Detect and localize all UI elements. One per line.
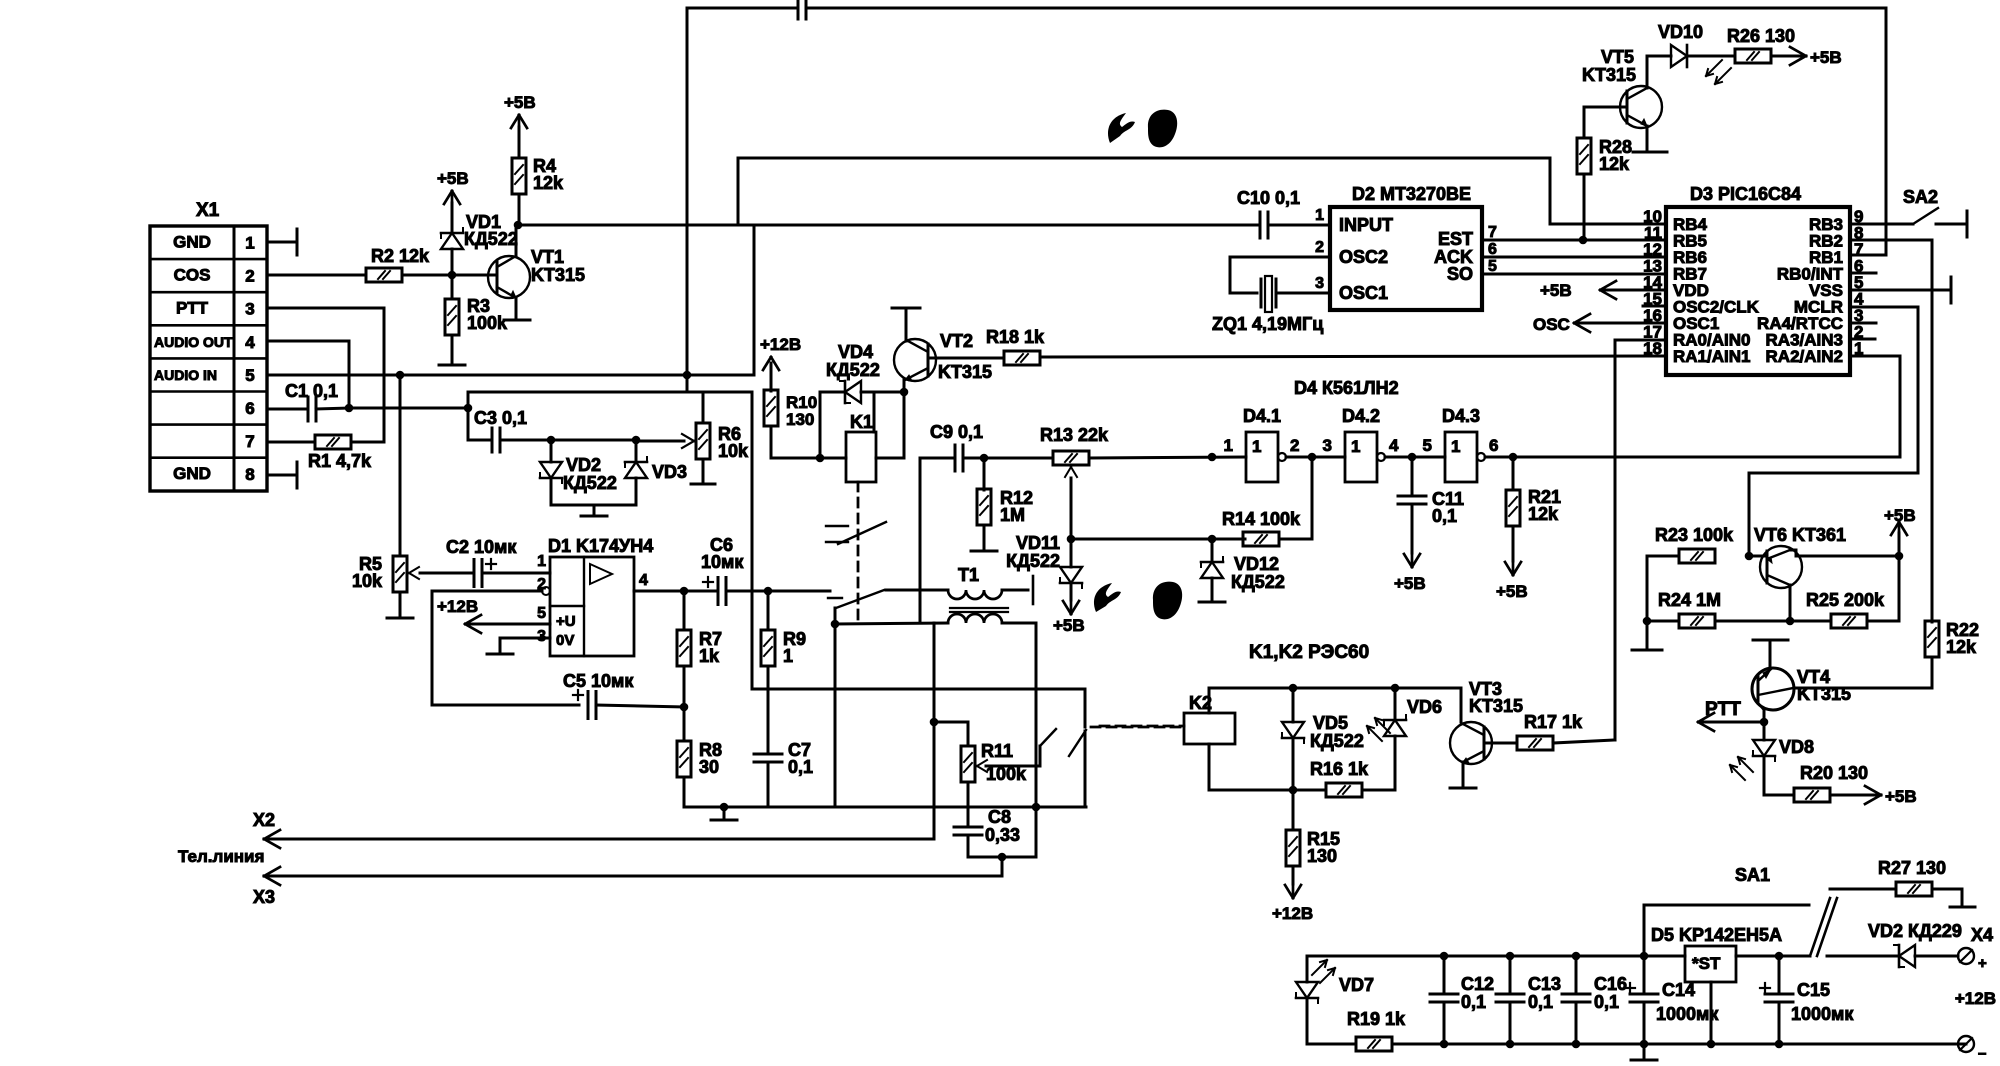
wire SA1 input from C14 node (1643, 905, 1646, 956)
svg-text:1: 1 (1315, 207, 1324, 224)
svg-text:R19 1k: R19 1k (1347, 1009, 1406, 1029)
svg-text:18: 18 (1643, 339, 1662, 358)
transformer T1 lower winding (948, 614, 1002, 623)
wire R1 to PTT riser (351, 441, 384, 444)
node C16 bottom (1572, 1040, 1581, 1049)
svg-text:INPUT: INPUT (1339, 215, 1393, 235)
svg-text:VT2: VT2 (940, 331, 973, 351)
node R15 branch (1289, 786, 1298, 795)
svg-text:VT5: VT5 (1601, 47, 1634, 67)
wire C9 to R13 (963, 457, 1053, 460)
svg-text:VD11: VD11 (1016, 533, 1060, 553)
node D5 bottom (1707, 1040, 1716, 1049)
wire PSU top rail (1307, 955, 1685, 958)
svg-text:VD7: VD7 (1339, 975, 1374, 995)
wire VD2b to X4 plus (1915, 955, 1958, 958)
transistor VT5 (1620, 86, 1662, 128)
wire contact node riser to bottom rail (834, 624, 837, 807)
wire X3 riser (1001, 857, 1004, 876)
wire K1 top lead (873, 392, 876, 432)
resistor R21 (1512, 457, 1515, 490)
svg-text:100k: 100k (467, 313, 508, 333)
resistor R1 (267, 441, 315, 444)
scan artifact blob 1a (1108, 113, 1135, 143)
terminal X3 arrow (264, 867, 280, 876)
wire X3 line (264, 875, 1002, 878)
wire R15 to +12V down arrow (1292, 866, 1295, 884)
capacitor C8 (954, 826, 982, 829)
node VD2 branch (547, 436, 556, 445)
wiper arrow into R11 (986, 765, 1040, 768)
svg-text:R2 12k: R2 12k (371, 246, 430, 266)
wire VD11 node to R14 line (1071, 538, 1212, 541)
svg-text:30: 30 (699, 757, 719, 777)
svg-text:12k: 12k (533, 173, 564, 193)
wire K2 top rail (1208, 688, 1211, 713)
wire R26 to +5V arrow right (1771, 55, 1806, 58)
ground VD12 (1211, 578, 1214, 600)
node lower winding lead on bottom rail (1032, 803, 1041, 812)
svg-text:0,1: 0,1 (788, 757, 813, 777)
svg-text:+5В: +5В (1540, 281, 1572, 300)
svg-text:4: 4 (245, 333, 255, 352)
node VT6 collector junction (1786, 617, 1795, 626)
wire D5 ground lead (1710, 982, 1713, 1044)
svg-text:D4.2: D4.2 (1342, 406, 1380, 426)
svg-text:130: 130 (786, 410, 814, 429)
wire C11 to +5V down arrow (1411, 504, 1414, 553)
node C14 bottom (1640, 1040, 1649, 1049)
svg-text:КД522: КД522 (1006, 551, 1060, 571)
node X3 riser junction (998, 853, 1007, 862)
capacitor C12 (1443, 956, 1446, 991)
wire D4.3 output line (1485, 456, 1900, 459)
capacitor C16 (1575, 956, 1578, 991)
power +5V arrow above R4 (518, 127, 521, 158)
svg-text:KT315: KT315 (1797, 684, 1851, 704)
svg-text:0,1: 0,1 (1594, 992, 1619, 1012)
wire top bus horizontal (687, 7, 798, 10)
svg-text:+5В: +5В (1496, 582, 1528, 601)
diode VD5 (1292, 688, 1295, 722)
svg-text:R1 4,7k: R1 4,7k (308, 451, 372, 471)
resistor R6 trimmer (696, 423, 710, 459)
resistor R13 trimmer (1053, 451, 1089, 465)
wire R8 to bottom rail (683, 777, 686, 807)
svg-text:1: 1 (1252, 437, 1261, 456)
svg-text:КД522: КД522 (826, 360, 880, 380)
relay K1 actuator dashed link (857, 482, 860, 622)
svg-text:+5В: +5В (1884, 506, 1916, 525)
svg-text:C5 10мк: C5 10мк (563, 671, 634, 691)
wire loop corner to bottom rail (1084, 689, 1087, 727)
wire RB2 to R22 riser (1850, 239, 1932, 242)
svg-text:R18 1k: R18 1k (986, 327, 1045, 347)
wire audio-out feedback line (467, 392, 470, 408)
svg-text:D3 PIC16C84: D3 PIC16C84 (1690, 184, 1801, 204)
svg-text:KT315: KT315 (1582, 65, 1636, 85)
resistor R26 (1735, 49, 1771, 63)
ground VD2/VD3 (581, 515, 607, 518)
node D4.1 output junction (1308, 453, 1317, 462)
svg-text:1000мк: 1000мк (1791, 1004, 1854, 1024)
wire D4.2 out to D4.3 in (1385, 456, 1445, 459)
svg-text:OSC: OSC (1533, 315, 1570, 334)
wire audio line corner up to C10 line (753, 226, 756, 375)
wire VT6 emitter to +5V node (1790, 549, 1796, 552)
svg-text:1: 1 (1351, 437, 1360, 456)
node VD6 top (1391, 684, 1400, 693)
ground D1 pin3 (487, 653, 513, 656)
diode VD7 LED (1306, 956, 1309, 982)
svg-text:VD12: VD12 (1234, 554, 1279, 574)
node C12 bottom (1440, 1040, 1449, 1049)
capacitor C14 polarized (1643, 956, 1646, 991)
wire R16 right to VD6 (1362, 789, 1395, 792)
wire audio line drop to feedback line (686, 375, 689, 392)
node VT6 base junction (1745, 552, 1754, 561)
transistor VT4 (1752, 668, 1794, 710)
svg-text:SO: SO (1447, 264, 1473, 284)
wire RB1 from top bus (1850, 254, 1886, 257)
node C16 top (1572, 952, 1581, 961)
svg-text:T1: T1 (958, 565, 979, 585)
node C12 top (1440, 952, 1449, 961)
svg-text:R23 100k: R23 100k (1655, 525, 1734, 545)
svg-text:RA1/AIN1: RA1/AIN1 (1673, 347, 1750, 366)
svg-text:5: 5 (1423, 436, 1432, 455)
svg-text:C2 10мк: C2 10мк (446, 537, 517, 557)
contact K1.2 blade (836, 590, 884, 608)
wire VD4 anode to VT2 emitter node (861, 391, 904, 394)
resistor R16 (1326, 783, 1362, 797)
svg-text:GND: GND (173, 464, 211, 483)
svg-text:VD2 КД229: VD2 КД229 (1868, 921, 1962, 941)
wire VT1 emitter to ground (515, 298, 518, 318)
wire D1 output (634, 590, 715, 593)
resistor R15 (1292, 790, 1295, 830)
svg-text:COS: COS (174, 266, 211, 285)
svg-text:X3: X3 (253, 887, 275, 907)
svg-text:3: 3 (245, 300, 254, 319)
diode VD10 LED (1671, 45, 1687, 67)
PTT arrow (1699, 721, 1764, 724)
svg-text:RA2/AIN2: RA2/AIN2 (1766, 347, 1843, 366)
svg-text:X2: X2 (253, 810, 275, 830)
transistor VT3 (1450, 722, 1492, 764)
svg-text:R20 130: R20 130 (1800, 763, 1868, 783)
svg-text:D2 MT3270BE: D2 MT3270BE (1352, 184, 1471, 204)
wire VT1 collector to node (515, 225, 518, 256)
node R12 branch (980, 454, 989, 463)
wire feedback riser down to loop line (751, 392, 754, 689)
svg-text:5: 5 (245, 366, 254, 385)
wire R28 top to VT5 base (1583, 107, 1586, 138)
node C15 top (1775, 952, 1784, 961)
wire VT3 emitter to ground (1462, 762, 1465, 786)
capacitor C2 polarized (473, 560, 476, 587)
svg-text:EST: EST (1438, 229, 1473, 249)
wire C8 bottom (967, 835, 970, 857)
resistor R4 (512, 158, 526, 194)
svg-text:D1 K174УН4: D1 K174УН4 (548, 536, 653, 556)
transistor VT1 (488, 256, 530, 298)
OSC arrow into OSC1 (1575, 322, 1666, 325)
wire R11 top lead (967, 722, 970, 746)
wire VT4 top to terminator bar (1769, 641, 1772, 668)
svg-text:OSC2: OSC2 (1339, 247, 1388, 267)
scan artifact blob 2a (1094, 583, 1121, 612)
diode VD6 LED (1394, 688, 1397, 720)
transformer T1 core (950, 607, 1008, 609)
ground R12 (983, 525, 986, 549)
wire R10 to K1 wire (770, 426, 773, 458)
svg-text:6: 6 (1489, 436, 1498, 455)
svg-text:OSC1: OSC1 (1339, 283, 1388, 303)
wire C1 to junction (316, 408, 349, 409)
wire PTT pin3 riser (267, 307, 384, 310)
wire VT2 base to R18 (928, 357, 1004, 360)
wire VT2 emitter node down and left to R10 wire (903, 392, 906, 458)
node R7/R8/C5 junction (680, 703, 689, 712)
svg-text:+5В: +5В (1885, 787, 1917, 806)
voltage regulator D5 (1685, 946, 1736, 982)
wire VT1 collector line to C10 (518, 224, 1257, 227)
wire R24 to R25 (1715, 620, 1831, 623)
wire RB4 drop to C10 line (737, 158, 740, 225)
switch SA2 (1913, 208, 1938, 224)
svg-text:SA2: SA2 (1903, 187, 1938, 207)
node C13 bottom (1506, 1040, 1515, 1049)
wire VT6 collector down (1789, 585, 1792, 621)
wire VD8 to R20 (1763, 756, 1766, 795)
svg-text:1M: 1M (1000, 505, 1025, 525)
wire D1 pin3 to ground (500, 637, 550, 640)
node C15 bottom (1775, 1040, 1784, 1049)
svg-text:R17 1k: R17 1k (1524, 712, 1583, 732)
IC D3 box (1666, 207, 1850, 375)
svg-text:D4.1: D4.1 (1243, 406, 1281, 426)
svg-text:2: 2 (1290, 436, 1299, 455)
svg-text:X1: X1 (196, 200, 220, 221)
relay coil K1 (846, 432, 876, 482)
svg-text:+5В: +5В (1810, 48, 1842, 67)
resistor R10 (764, 390, 778, 426)
svg-text:0,1: 0,1 (1461, 992, 1486, 1012)
bottom rail wire (684, 806, 1086, 809)
ground VT1 emitter (504, 319, 530, 322)
wire pin6 to C1 (267, 408, 308, 411)
wire VD4 cathode branch (819, 392, 822, 458)
svg-text:K1,K2 РЭС60: K1,K2 РЭС60 (1249, 642, 1369, 663)
node VT2 emitter junction (900, 388, 909, 397)
resistor R3 (451, 275, 454, 299)
capacitor C10 (1259, 212, 1262, 238)
svg-text:7: 7 (1488, 224, 1497, 241)
wire VT3 collector from rail (1460, 688, 1463, 722)
svg-text:C10 0,1: C10 0,1 (1237, 188, 1300, 208)
terminal X4 plus (1958, 948, 1974, 964)
wire VT3 base to R17 (1484, 742, 1517, 745)
svg-text:AUDIO IN: AUDIO IN (154, 367, 217, 383)
svg-text:8: 8 (245, 465, 254, 484)
svg-text:Тел.линия: Тел.линия (178, 847, 264, 866)
wire VT5 emitter to ground (1646, 126, 1649, 150)
wire lower winding left lead (835, 623, 948, 624)
svg-text:1k: 1k (699, 646, 720, 666)
svg-text:GND: GND (173, 233, 211, 252)
ground VT3 (1450, 787, 1476, 790)
wire RB4 route (1550, 223, 1666, 226)
wire ZQ1 to OSC1 (1276, 292, 1330, 295)
contact K1.1 blade (838, 522, 886, 544)
svg-text:VD2: VD2 (566, 455, 601, 475)
svg-text:1: 1 (537, 553, 546, 570)
resistor R18 (1004, 351, 1040, 365)
svg-text:3: 3 (1315, 275, 1324, 292)
wire COS pin2 to R2 (267, 274, 366, 277)
transistor VT6 (1760, 546, 1802, 588)
svg-text:KT315: KT315 (938, 362, 992, 382)
svg-text:VD4: VD4 (838, 342, 873, 362)
resistor R14 (1243, 532, 1279, 546)
svg-text:3: 3 (1323, 436, 1332, 455)
resistor R17 (1517, 736, 1553, 750)
node R7 top branch (680, 587, 689, 596)
capacitor C9 (954, 445, 957, 471)
dashed link into K2 (1100, 725, 1184, 728)
capacitor C1 (307, 397, 310, 421)
wire R14 left to VD11/VD12 node (1212, 538, 1245, 541)
power +5V arrow into VDD (1601, 289, 1666, 292)
svg-text:+12В: +12В (1955, 989, 1996, 1008)
wire C3 to VD2 node (500, 439, 551, 442)
wire R2 to VT1 base node (402, 274, 485, 277)
svg-text:12k: 12k (1599, 154, 1630, 174)
capacitor C4 top bus (797, 0, 800, 19)
wire R14 right up to D4.1 output (1279, 538, 1312, 541)
wire VD2-VD3 common to ground (551, 504, 636, 507)
node VT1 collector (514, 221, 523, 230)
node VT1 base junction (448, 271, 457, 280)
svg-text:+U: +U (556, 613, 576, 630)
svg-text:SA1: SA1 (1735, 865, 1770, 885)
svg-text:КД522: КД522 (563, 473, 617, 493)
svg-text:6: 6 (245, 399, 254, 418)
wire R21 to +5V down arrow (1512, 526, 1515, 561)
node R9 top branch (764, 587, 773, 596)
wire K2 bottom rail (1208, 744, 1211, 790)
wire VD10 to R26 (1687, 55, 1735, 58)
svg-text:R24 1M: R24 1M (1658, 590, 1721, 610)
wire RA2 route to D4.3 output (1850, 355, 1900, 358)
wire D5 output to C15 (1736, 955, 1810, 958)
resistor R5 trimmer (399, 375, 402, 556)
resistor R2 (366, 268, 402, 282)
svg-text:0,1: 0,1 (1528, 992, 1553, 1012)
resistor R19 (1356, 1037, 1392, 1051)
svg-text:D5 KP142EH5A: D5 KP142EH5A (1651, 925, 1782, 945)
svg-text:10мк: 10мк (701, 552, 744, 572)
svg-text:6: 6 (1488, 241, 1497, 258)
svg-text:+12В: +12В (437, 597, 478, 616)
svg-text:D4 К561ЛН2: D4 К561ЛН2 (1294, 378, 1399, 398)
svg-text:КД522: КД522 (1231, 572, 1285, 592)
capacitor C7 (754, 753, 782, 756)
wire R20 to +5V arrow (1830, 794, 1881, 797)
wire pin4 AUDIO OUT (267, 340, 349, 343)
svg-text:K1: K1 (850, 412, 873, 432)
resistor R8 (683, 666, 686, 741)
resistor R11 trimmer (961, 746, 975, 782)
svg-text:5: 5 (1488, 258, 1497, 275)
pin 8 stub wire and terminator (267, 474, 296, 477)
svg-text:PTT: PTT (176, 299, 209, 318)
transformer T1 top winding end bar (1032, 576, 1035, 604)
relay coil K2 (1184, 713, 1235, 744)
diode VD11 (1070, 539, 1073, 567)
node bottom rail ground (720, 803, 729, 812)
svg-text:2: 2 (1315, 239, 1324, 256)
logic gate D4.1 (1246, 432, 1278, 482)
node VD5 top (1289, 684, 1298, 693)
ground VT5 (1633, 151, 1667, 154)
svg-text:12k: 12k (1946, 637, 1977, 657)
svg-text:+12В: +12В (1272, 904, 1313, 923)
stub RB0/INT (1850, 272, 1876, 275)
transistor VT2 (894, 339, 936, 381)
power +5V arrow at VT6 (1898, 522, 1901, 538)
svg-text:R25 200k: R25 200k (1806, 590, 1885, 610)
diode VD1 (451, 249, 454, 275)
svg-text:C16: C16 (1594, 974, 1627, 994)
IC D2 box (1330, 207, 1482, 310)
node R11 top junction (930, 718, 939, 727)
diode VD8 LED (1763, 722, 1766, 740)
svg-text:R13 22k: R13 22k (1040, 425, 1109, 445)
wire R27 to terminator (1932, 888, 1962, 891)
wire R24 left (1647, 620, 1679, 623)
crystal ZQ1 (1260, 279, 1263, 307)
wire C10 to D2 INPUT (1268, 224, 1330, 227)
svg-text:C13: C13 (1528, 974, 1561, 994)
scan artifact blob 2b (1153, 582, 1182, 620)
node top-bus junction on audio line (683, 371, 692, 380)
wire R11 bottom to C8 (967, 782, 970, 824)
node pin4/C1 junction (345, 404, 354, 413)
svg-text:1: 1 (783, 646, 793, 666)
wire VT4 base down to PTT node (1763, 710, 1766, 722)
ground R5 (399, 592, 402, 617)
svg-text:+5В: +5В (437, 169, 469, 188)
svg-text:4: 4 (639, 572, 648, 589)
svg-text:R27 130: R27 130 (1878, 858, 1946, 878)
svg-text:VT1: VT1 (531, 247, 564, 267)
node VD12 wiper junction (1208, 535, 1217, 544)
wire R28 to EST wire (1583, 174, 1586, 240)
wire MCLR route to VT6 base (1850, 306, 1918, 309)
node R24 ground junction (1643, 617, 1652, 626)
wire C9 left lead (920, 457, 955, 460)
diode VD12 (1211, 539, 1214, 562)
wire top bus to RB1 riser (806, 7, 1886, 10)
wire lower winding right lead down (1035, 623, 1038, 857)
switch SA1 (1810, 898, 1830, 956)
ground bottom rail (723, 807, 726, 819)
wire AUDIO IN pin5 line (267, 374, 754, 377)
node VT6 emitter +5V junction (1895, 552, 1904, 561)
resistor R9 (767, 591, 770, 630)
